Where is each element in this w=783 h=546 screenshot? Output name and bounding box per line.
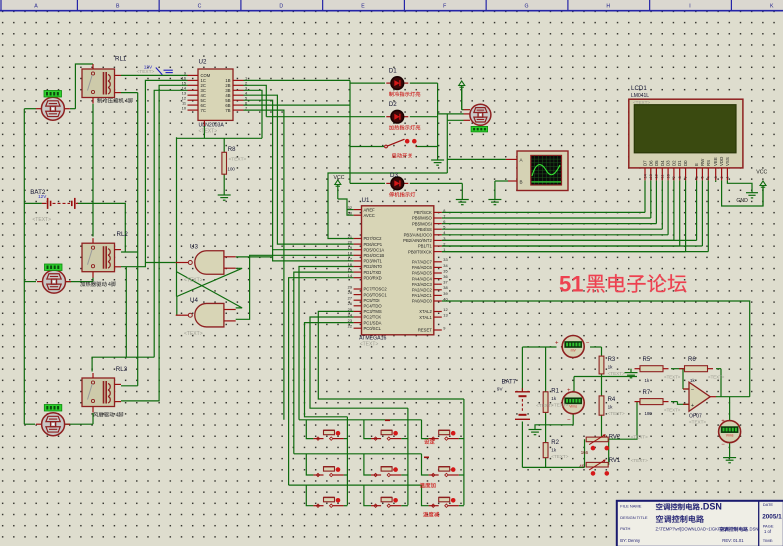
svg-text:PA1/ADC1: PA1/ADC1 — [412, 293, 433, 298]
svg-text:PD6/ICP1: PD6/ICP1 — [364, 242, 383, 247]
svg-text:4: 4 — [707, 176, 711, 178]
svg-text:RESET: RESET — [418, 328, 432, 333]
svg-text:BAT7: BAT7 — [502, 380, 517, 386]
svg-text:13: 13 — [443, 313, 447, 318]
svg-text:TIME:: TIME: — [763, 538, 774, 543]
svg-text:DATE: DATE — [763, 502, 774, 507]
svg-text:PD1/TXD: PD1/TXD — [364, 270, 382, 275]
svg-text:D3: D3 — [666, 160, 671, 166]
svg-text:9V: 9V — [497, 387, 504, 392]
svg-text:PC0/SCL: PC0/SCL — [364, 326, 382, 331]
svg-text:1k: 1k — [608, 405, 614, 410]
svg-text:<TEXT>: <TEXT> — [608, 411, 625, 416]
svg-text:Vrms: Vrms — [569, 405, 577, 409]
svg-text:D0: D0 — [683, 160, 688, 166]
svg-text:D1: D1 — [677, 160, 682, 166]
svg-text:R8: R8 — [228, 147, 236, 153]
svg-text:R4: R4 — [608, 397, 616, 403]
svg-text:4脚: 4脚 — [125, 98, 133, 105]
svg-text:11: 11 — [661, 175, 665, 179]
svg-text:23: 23 — [348, 318, 352, 323]
svg-text:12V: 12V — [38, 194, 47, 199]
svg-text:PD3/INT1: PD3/INT1 — [364, 259, 383, 264]
svg-text:PB2/AIN0/INT2: PB2/AIN0/INT2 — [403, 238, 432, 243]
svg-text:8: 8 — [443, 208, 445, 213]
svg-text:5: 5 — [443, 225, 445, 230]
svg-text:PB7/SCK: PB7/SCK — [414, 210, 432, 215]
svg-text:35: 35 — [443, 268, 447, 273]
svg-text:<TEXT>: <TEXT> — [633, 100, 650, 105]
svg-text:PATH: PATH — [620, 526, 630, 531]
svg-text:PAGE: PAGE — [763, 523, 774, 528]
svg-text:D7: D7 — [643, 160, 648, 166]
svg-text:28: 28 — [348, 290, 352, 295]
svg-text:180: 180 — [645, 411, 653, 416]
svg-text:U4: U4 — [190, 297, 198, 304]
svg-text:D: D — [279, 3, 283, 9]
svg-text:2: 2 — [720, 176, 724, 178]
svg-text:<TEXT>: <TEXT> — [631, 458, 648, 463]
svg-text:A: A — [34, 3, 38, 9]
svg-text:4脚: 4脚 — [108, 281, 116, 288]
svg-text:1k: 1k — [551, 448, 557, 453]
svg-text:E: E — [694, 163, 699, 166]
svg-text:AVCC: AVCC — [364, 213, 375, 218]
svg-text:VSS: VSS — [725, 157, 730, 166]
svg-text:R7: R7 — [643, 390, 651, 396]
svg-text:17: 17 — [348, 256, 352, 261]
svg-text:21: 21 — [348, 234, 352, 239]
svg-text:<TEXT>: <TEXT> — [631, 435, 648, 440]
svg-text:C: C — [198, 3, 202, 9]
svg-text:D6: D6 — [648, 160, 653, 166]
svg-text:26: 26 — [348, 301, 352, 306]
svg-text:R1: R1 — [551, 389, 559, 395]
svg-text:12: 12 — [655, 174, 659, 178]
svg-text:Vrms: Vrms — [726, 433, 734, 437]
svg-text:PB6/MISO: PB6/MISO — [412, 216, 433, 221]
svg-text:PD2/INT0: PD2/INT0 — [364, 264, 383, 269]
svg-text:19: 19 — [348, 245, 352, 250]
svg-text:7C: 7C — [201, 108, 206, 113]
svg-text:PC2/TCK: PC2/TCK — [364, 315, 382, 320]
svg-text:2005/1: 2005/1 — [762, 514, 782, 521]
svg-text:AREF: AREF — [364, 207, 376, 212]
svg-text:3: 3 — [714, 176, 718, 178]
svg-text:1 of: 1 of — [764, 529, 772, 534]
svg-text:9: 9 — [672, 176, 676, 178]
svg-text:D4: D4 — [660, 160, 665, 166]
svg-text:PA5/ADC5: PA5/ADC5 — [412, 271, 433, 276]
svg-text:D5: D5 — [654, 160, 659, 166]
svg-text:2: 2 — [443, 241, 445, 246]
svg-text:LCD1: LCD1 — [631, 85, 647, 92]
svg-text:<TEXT>: <TEXT> — [184, 331, 203, 337]
svg-text:F: F — [443, 3, 446, 9]
svg-text:mV: mV — [571, 348, 577, 352]
svg-text:R3: R3 — [608, 357, 616, 363]
svg-text:13: 13 — [649, 174, 653, 178]
svg-text:H: H — [606, 3, 610, 9]
svg-text:PA2/ADC2: PA2/ADC2 — [412, 288, 433, 293]
svg-text:VCC: VCC — [756, 170, 767, 176]
svg-text:5: 5 — [701, 176, 705, 178]
svg-text:7: 7 — [443, 213, 445, 218]
svg-text:PD7/OC2: PD7/OC2 — [364, 236, 383, 241]
svg-text:I: I — [689, 3, 690, 9]
svg-text:U3: U3 — [190, 244, 198, 251]
svg-text:<TEXT>: <TEXT> — [664, 375, 681, 380]
svg-text:33: 33 — [443, 257, 447, 262]
svg-text:D3: D3 — [390, 172, 398, 179]
svg-text:<TEXT>: <TEXT> — [199, 129, 218, 135]
svg-text:PC1/SDA: PC1/SDA — [364, 320, 382, 325]
svg-text:D2: D2 — [389, 101, 397, 108]
svg-text:LM041L: LM041L — [631, 93, 649, 99]
svg-text:PC6/TOSC1: PC6/TOSC1 — [364, 292, 388, 297]
svg-text:<TEXT>: <TEXT> — [708, 375, 725, 380]
svg-text:1k: 1k — [690, 378, 695, 383]
svg-text:.DSN: .DSN — [748, 527, 758, 532]
svg-text:7B: 7B — [225, 108, 230, 113]
svg-text:37: 37 — [443, 280, 447, 285]
svg-text:RL2: RL2 — [117, 231, 129, 238]
svg-text:R5: R5 — [643, 357, 651, 363]
svg-text:29: 29 — [348, 284, 352, 289]
svg-text:36: 36 — [443, 274, 447, 279]
svg-text:<TEXT>: <TEXT> — [32, 217, 51, 223]
svg-text:18: 18 — [348, 251, 352, 256]
svg-text:1k: 1k — [608, 365, 614, 370]
svg-text:1k: 1k — [551, 396, 557, 401]
svg-text:3: 3 — [443, 236, 445, 241]
svg-text:25: 25 — [348, 307, 352, 312]
svg-text:D1: D1 — [389, 68, 397, 75]
svg-text:PA7/ADC7: PA7/ADC7 — [412, 260, 433, 265]
svg-text:100: 100 — [228, 167, 236, 172]
svg-text:1k: 1k — [645, 378, 650, 383]
svg-text:−: − — [567, 418, 571, 424]
svg-text:+: + — [567, 388, 571, 394]
svg-text:PD5/OC1A: PD5/OC1A — [364, 247, 385, 252]
svg-text:32: 32 — [348, 205, 352, 210]
svg-text:16: 16 — [348, 262, 352, 267]
svg-text:<TEXT>: <TEXT> — [229, 157, 247, 163]
svg-text:38: 38 — [443, 285, 447, 290]
svg-text:51: 51 — [559, 272, 583, 297]
svg-text:<TEXT>: <TEXT> — [184, 278, 203, 284]
svg-text:D2: D2 — [671, 160, 676, 166]
svg-text:B: B — [520, 180, 523, 185]
svg-text:<TEXT>: <TEXT> — [551, 454, 568, 459]
svg-text:PA4/ADC4: PA4/ADC4 — [412, 276, 433, 281]
svg-text:166: 166 — [581, 450, 589, 455]
svg-text:−: − — [721, 442, 725, 448]
svg-text:PA6/ADC6: PA6/ADC6 — [412, 265, 433, 270]
svg-text:PB0/T0/XCK: PB0/T0/XCK — [408, 249, 432, 254]
svg-text:VCC: VCC — [334, 175, 345, 181]
svg-text:PB5/MOSI: PB5/MOSI — [412, 221, 432, 226]
svg-text:PC4/TDO: PC4/TDO — [364, 304, 383, 309]
svg-text:RV2: RV2 — [609, 435, 621, 441]
svg-text:G: G — [524, 3, 528, 9]
svg-text:1: 1 — [726, 176, 730, 178]
svg-text:7: 7 — [684, 176, 688, 178]
svg-text:FILE NAME: FILE NAME — [620, 503, 641, 508]
svg-text:7: 7 — [245, 105, 247, 110]
svg-text:27: 27 — [348, 296, 352, 301]
svg-text:39: 39 — [443, 291, 447, 296]
svg-text:RL3: RL3 — [116, 366, 128, 373]
svg-text:1: 1 — [443, 247, 445, 252]
svg-text:−: − — [586, 341, 590, 347]
svg-text:PA3/ADC3: PA3/ADC3 — [412, 282, 433, 287]
svg-text:REV: 01.01: REV: 01.01 — [722, 538, 744, 543]
svg-text:R2: R2 — [551, 440, 559, 446]
svg-text:U1: U1 — [362, 197, 370, 204]
svg-text:GND: GND — [736, 198, 748, 204]
svg-text:<TEXT>: <TEXT> — [689, 420, 706, 425]
svg-text:6: 6 — [695, 176, 699, 178]
svg-text:E: E — [361, 3, 365, 9]
svg-text:B: B — [116, 3, 120, 9]
svg-text:9: 9 — [443, 325, 445, 330]
svg-text:PB1/T1: PB1/T1 — [418, 244, 433, 249]
svg-text:PA0/ADC0: PA0/ADC0 — [412, 299, 433, 304]
svg-text:K: K — [770, 3, 774, 9]
svg-text:4脚: 4脚 — [116, 412, 124, 419]
svg-text:<TEXT>: <TEXT> — [608, 371, 625, 376]
svg-text:+: + — [555, 341, 559, 347]
svg-text:PC5/TDI: PC5/TDI — [364, 298, 380, 303]
svg-text:<TEXT>: <TEXT> — [536, 403, 553, 408]
svg-text:XTAL2: XTAL2 — [419, 309, 432, 314]
svg-text:<TEXT>: <TEXT> — [664, 408, 681, 413]
svg-text:RV1: RV1 — [609, 458, 621, 464]
svg-text:VDD: VDD — [719, 157, 724, 166]
svg-text:12: 12 — [443, 307, 447, 312]
svg-text:−: − — [691, 388, 694, 394]
svg-text:PD4/OC1B: PD4/OC1B — [364, 253, 385, 258]
svg-text:.DSN: .DSN — [700, 501, 722, 511]
svg-text:<TEXT>: <TEXT> — [551, 403, 568, 408]
svg-text:U2: U2 — [199, 59, 207, 66]
svg-text:BY: Denny: BY: Denny — [620, 538, 641, 543]
svg-text:8: 8 — [678, 176, 682, 178]
svg-text:22: 22 — [348, 324, 352, 329]
svg-text:10: 10 — [666, 174, 670, 178]
svg-text:15: 15 — [348, 268, 352, 273]
svg-text:<TEXT>: <TEXT> — [360, 342, 379, 348]
svg-text:PC3/TMS: PC3/TMS — [364, 309, 382, 314]
svg-text:+: + — [721, 419, 725, 425]
svg-text:RW: RW — [700, 158, 705, 166]
svg-text:46: 46 — [579, 463, 584, 468]
svg-text:6: 6 — [443, 219, 445, 224]
svg-text:R6: R6 — [688, 357, 696, 363]
svg-text:RS: RS — [706, 160, 711, 166]
svg-text:14: 14 — [643, 174, 647, 178]
svg-text:Z:\TEMP?\vr\[DOWNLOAD~1\GKFFQ\: Z:\TEMP?\vr\[DOWNLOAD~1\GKFFQ\ — [656, 527, 729, 532]
svg-text:DESIGN TITLE: DESIGN TITLE — [620, 515, 648, 520]
svg-text:RL1: RL1 — [115, 56, 127, 63]
svg-text:PB3/AIN1/OC0: PB3/AIN1/OC0 — [404, 233, 433, 238]
svg-text:XTAL1: XTAL1 — [419, 315, 432, 320]
svg-text:PB4/SS: PB4/SS — [417, 227, 432, 232]
svg-text:<TEXT>: <TEXT> — [137, 69, 155, 75]
svg-text:+: + — [691, 403, 694, 409]
svg-text:VEE: VEE — [713, 157, 718, 166]
svg-text:PC7/TOSC2: PC7/TOSC2 — [364, 287, 388, 292]
svg-text:PD0/RXD: PD0/RXD — [364, 275, 382, 280]
